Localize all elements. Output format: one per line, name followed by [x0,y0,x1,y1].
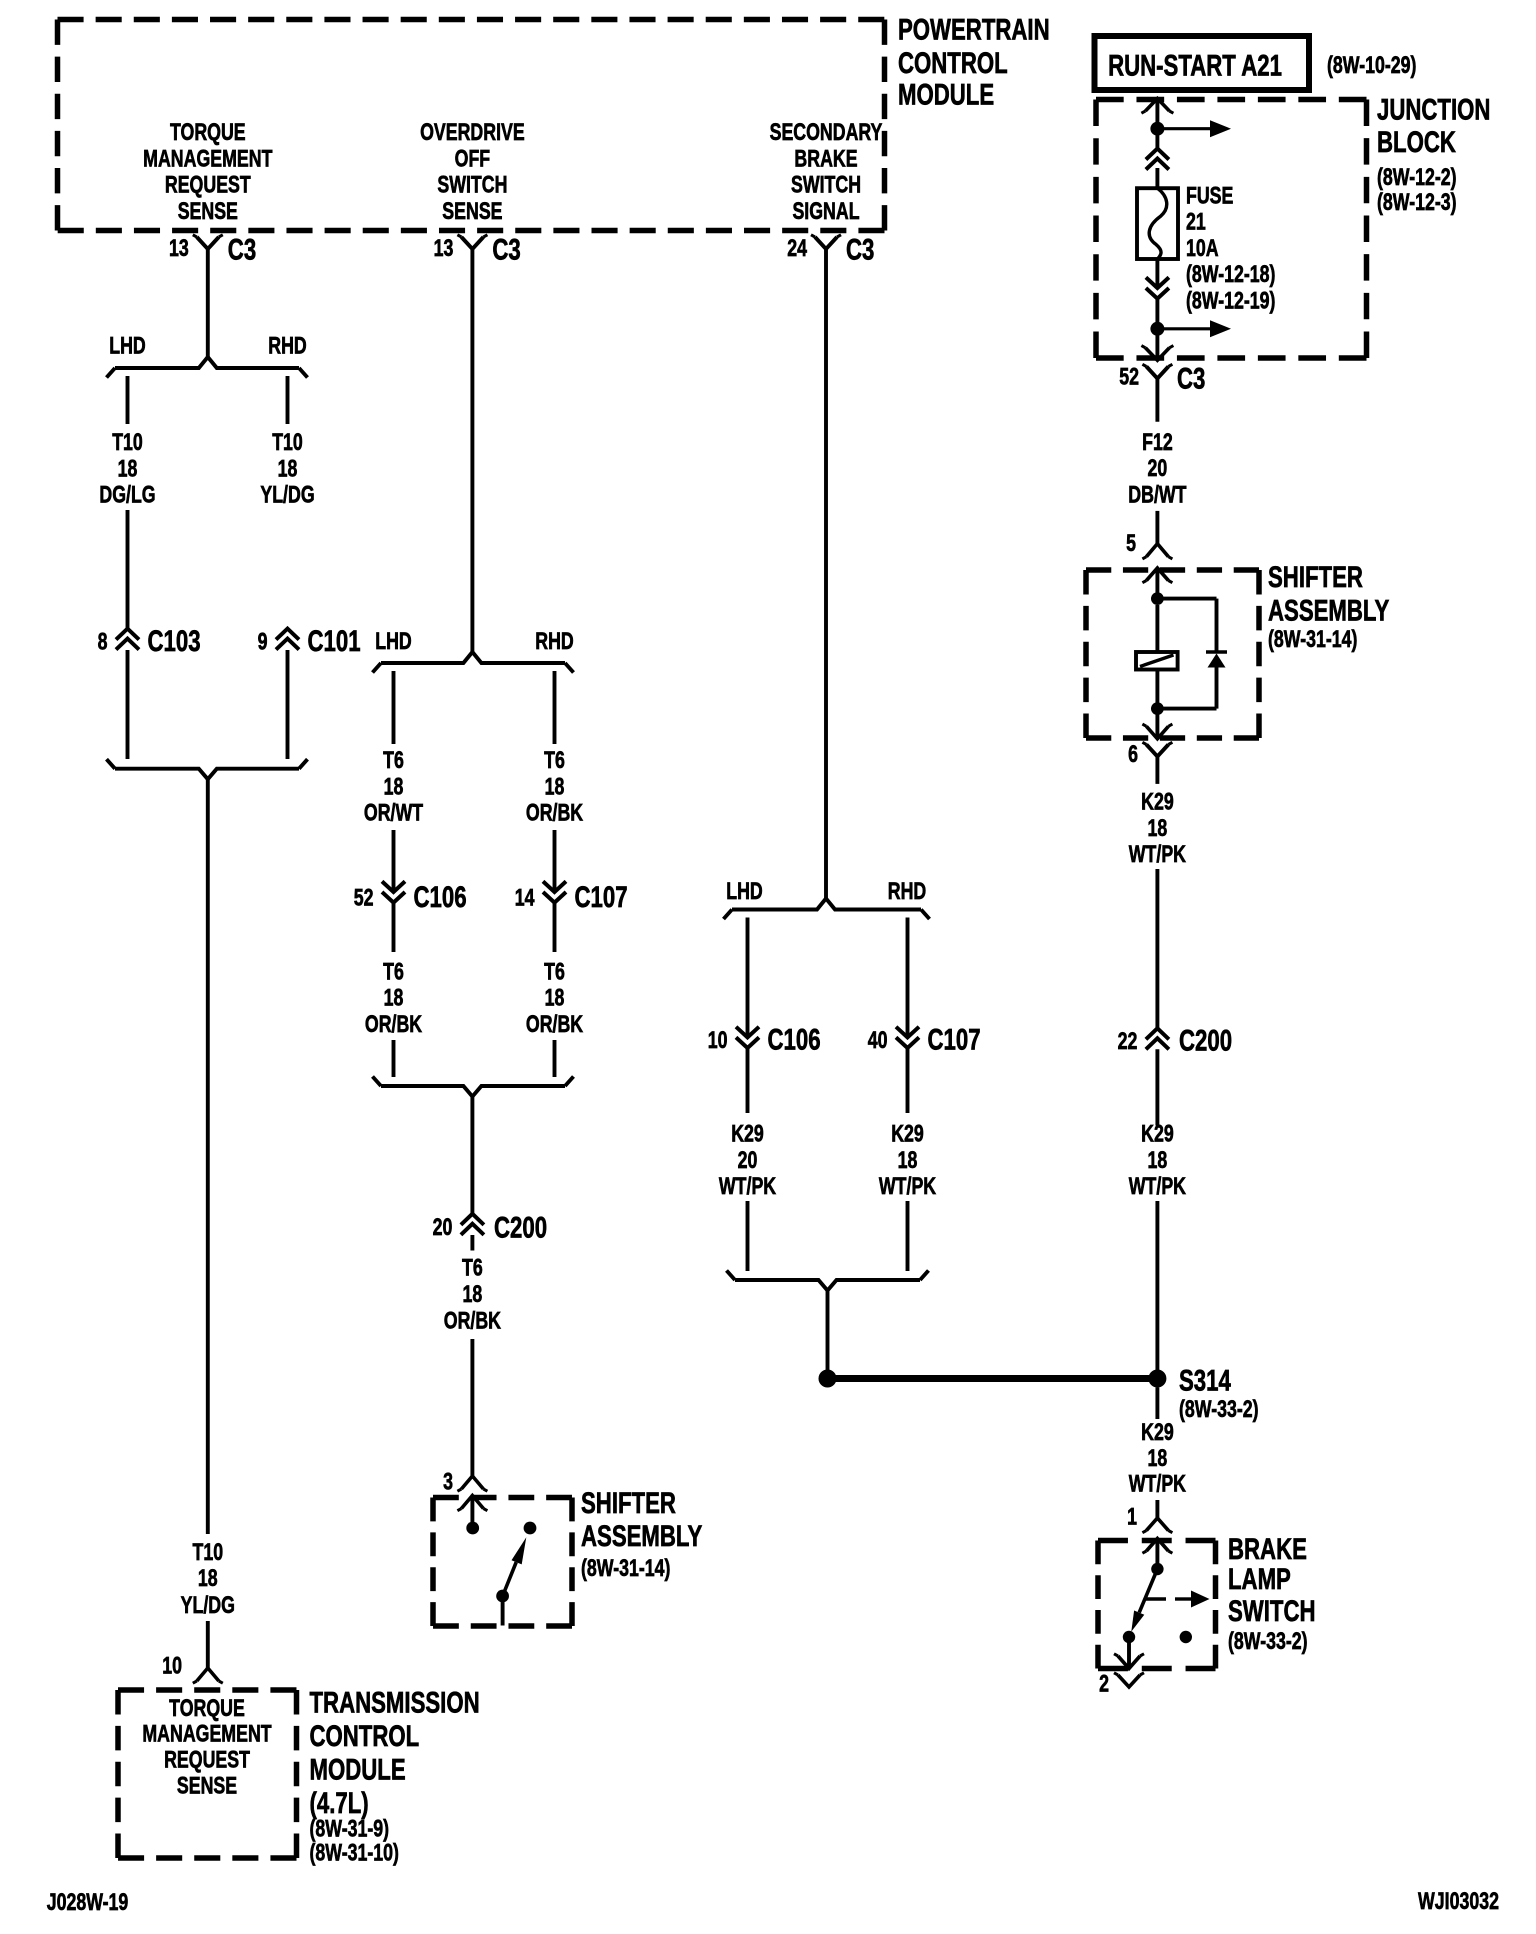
svg-text:JUNCTION: JUNCTION [1377,92,1490,126]
wire label F12 20 DB/WT [1128,429,1186,508]
junction dot (left end of S314 bus) [819,1370,837,1388]
connector C3 pin 13 (torque management request sense) [169,232,256,266]
wire merged T10 net down to TCM (long vertical) [206,779,210,1534]
wire below C200 [470,1235,474,1251]
shifter assembly dashed box (overdrive off switch) [433,1495,572,1501]
wire merged T6 net down to C200 [470,1097,474,1214]
svg-text:C200: C200 [1179,1023,1232,1057]
svg-text:ASSEMBLY: ASSEMBLY [581,1519,703,1553]
svg-text:5: 5 [1126,531,1136,557]
in-line connector C106 pin 52 [354,880,467,914]
svg-text:WT/PK: WT/PK [879,1174,937,1200]
svg-text:MANAGEMENT: MANAGEMENT [143,146,272,172]
diode branch wiring (top) [1157,597,1216,601]
splice label S314 (8W-33-2) [1179,1363,1259,1422]
svg-text:SHIFTER: SHIFTER [581,1486,676,1520]
connector terminal brake lamp switch pin 1 [1127,1504,1172,1533]
in-line connector C101 pin 9 [258,624,361,658]
svg-text:T6: T6 [462,1255,483,1281]
svg-text:T6: T6 [544,959,565,985]
LHD/RHD merge bracket (torque management request sense) [115,769,299,780]
svg-text:MODULE: MODULE [310,1752,406,1786]
svg-text:BRAKE: BRAKE [794,146,857,172]
brake lamp switch title [1228,1532,1316,1655]
svg-text:10A: 10A [1186,235,1219,261]
svg-text:SECONDARY: SECONDARY [770,120,883,146]
svg-text:T6: T6 [383,748,404,774]
LHD/RHD merge bracket (secondary brake) [735,1280,920,1291]
svg-text:TRANSMISSION: TRANSMISSION [310,1685,480,1719]
wire label T6 18 OR/BK (below C107) [526,959,584,1038]
svg-text:LAMP: LAMP [1228,1562,1291,1596]
wire LHD branch K29 upper segment [746,918,750,1038]
svg-text:52: 52 [1119,364,1139,390]
diode branch wire down to cathode [1215,599,1219,652]
junction block title [1377,92,1490,215]
svg-text:BRAKE: BRAKE [1228,1532,1307,1566]
wire merged K29 down to splice [826,1291,830,1372]
svg-text:18: 18 [384,774,404,800]
svg-text:CONTROL: CONTROL [310,1719,420,1753]
svg-text:18: 18 [384,985,404,1011]
svg-text:T10: T10 [112,430,143,456]
open arrow into shifter assembly (wire entering) [461,1496,483,1509]
svg-text:(8W-31-10): (8W-31-10) [310,1840,399,1866]
wire solenoid coil to bottom dot [1155,670,1159,709]
svg-text:K29: K29 [1141,1420,1174,1446]
svg-text:WT/PK: WT/PK [719,1174,777,1200]
wire label K29 20 WT/PK [719,1121,777,1200]
svg-text:OR/BK: OR/BK [526,800,584,826]
diode branch wire down from anode [1215,668,1219,709]
svg-text:6: 6 [1128,742,1138,768]
wire below C106 [392,903,396,952]
svg-text:C106: C106 [414,880,467,914]
in-line connector C107 pin 14 [515,880,628,914]
wire label K29 18 WT/PK (below S314) [1129,1420,1187,1498]
svg-text:FUSE: FUSE [1186,183,1233,209]
svg-text:14: 14 [515,885,535,911]
wire below fuse [1155,259,1159,288]
wire RHD branch to merge [553,1040,557,1077]
svg-text:18: 18 [1148,815,1168,841]
svg-text:SENSE: SENSE [178,198,238,224]
LHD/RHD split bracket [115,357,299,368]
svg-text:24: 24 [787,236,807,262]
svg-text:(8W-33-2): (8W-33-2) [1228,1629,1308,1655]
svg-text:(8W-12-19): (8W-12-19) [1186,288,1275,314]
svg-text:C106: C106 [768,1022,821,1056]
svg-text:18: 18 [1148,1445,1168,1471]
svg-text:18: 18 [1148,1147,1168,1173]
fuse label FUSE 21 10A (8W-12-18) (8W-12-19) [1186,183,1275,314]
RUN-START A21 feed box [1095,36,1310,90]
open arrow into shifter assembly (pin 5 wire) [1146,568,1168,581]
wire bottom dot to box exit [1155,709,1159,739]
wire RHD branch K29 upper segment [906,918,910,1038]
svg-text:C3: C3 [1177,361,1205,395]
LHD/RHD merge bracket (overdrive) [381,1086,565,1097]
svg-text:SWITCH: SWITCH [791,172,861,198]
svg-text:SWITCH: SWITCH [437,172,507,198]
svg-text:C3: C3 [492,232,520,266]
svg-text:YL/DG: YL/DG [260,482,314,508]
svg-text:13: 13 [434,236,454,262]
switch common contact dot (pin 1 side) [1151,1563,1163,1575]
wire LHD branch to merge [392,1040,396,1077]
wire below C200 (col4) [1155,1049,1159,1125]
svg-text:18: 18 [545,774,565,800]
svg-text:TORQUE: TORQUE [169,1695,245,1721]
svg-text:(8W-31-9): (8W-31-9) [310,1816,390,1842]
svg-text:RHD: RHD [535,629,573,655]
svg-text:SWITCH: SWITCH [1228,1594,1316,1628]
svg-text:2: 2 [1099,1671,1109,1697]
svg-text:C107: C107 [575,880,628,914]
open arrow down leaving junction block [1145,348,1169,361]
diode branch wiring (bottom) [1157,707,1216,711]
svg-text:18: 18 [545,985,565,1011]
wire down to splice S314 [1155,1201,1159,1371]
fuse 21 10A element [1137,188,1178,259]
svg-text:OR/WT: OR/WT [364,800,423,826]
wire RHD branch (T10 18 YL/DG) upper segment [286,376,290,424]
PCM pin label: TORQUE MANAGEMENT REQUEST SENSE [143,120,272,225]
svg-text:18: 18 [463,1282,483,1308]
svg-text:OFF: OFF [455,146,491,172]
wire contact dot to box exit [1127,1637,1131,1669]
svg-text:(8W-33-2): (8W-33-2) [1179,1397,1259,1423]
junction dot (solenoid bottom) [1151,702,1164,715]
wire label T6 18 OR/WT [364,748,423,827]
wire entry arrow to switch common dot [1155,1539,1159,1564]
svg-text:8: 8 [98,629,108,655]
wire LHD branch below C103 [126,650,130,759]
splice S314 dot [1148,1370,1166,1388]
svg-text:K29: K29 [731,1121,764,1147]
wire below splice S314 [1155,1388,1159,1420]
switch contact dot (overdrive off switch, right) [524,1522,537,1535]
svg-text:S314: S314 [1179,1363,1231,1397]
wire into TCM pin 10 [206,1621,210,1668]
svg-text:WJI03032: WJI03032 [1418,1889,1499,1915]
svg-text:C101: C101 [308,624,361,658]
svg-text:20: 20 [738,1147,758,1173]
switch contact dot (pin 2 side) [1123,1631,1135,1643]
connector terminal shifter assembly pin 6 [1128,742,1172,784]
wire RHD branch into C107 [553,830,557,892]
svg-text:20: 20 [433,1215,453,1241]
wire top dot to solenoid coil [1155,605,1159,652]
transmission control module TCM dashed box [118,1687,297,1693]
svg-text:3: 3 [443,1469,453,1495]
in-line connector C106 pin 10 [708,1022,821,1056]
overdrive off switch blade with arrowhead [503,1537,527,1596]
wire label T6 18 OR/BK (to shifter assembly) [444,1255,502,1334]
connector C3 pin 52 below junction block [1119,361,1205,422]
open arrow into brake lamp switch [1146,1539,1168,1552]
svg-text:C200: C200 [494,1210,547,1244]
svg-text:LHD: LHD [109,333,146,359]
shifter assembly title (upper) [1268,560,1390,653]
svg-text:20: 20 [1148,456,1168,482]
svg-text:1: 1 [1127,1504,1137,1530]
connector terminal brake lamp switch pin 2 [1099,1671,1144,1697]
PCM title: POWERTRAIN CONTROL MODULE [898,12,1050,111]
wire RHD branch T6 upper segment [553,671,557,744]
svg-text:LHD: LHD [726,879,763,905]
switch position tick [1146,1597,1166,1600]
junction dot (solenoid top) [1151,592,1164,605]
svg-text:9: 9 [258,629,268,655]
wire label T10 18 DG/LG [99,430,155,509]
connector C3 pin 24 (secondary brake switch signal) [787,232,874,266]
svg-text:K29: K29 [891,1121,924,1147]
connector C3 pin 13 (overdrive off switch sense) [434,232,521,266]
svg-text:10: 10 [162,1653,182,1679]
svg-text:CONTROL: CONTROL [898,46,1008,80]
wire down to C200 pin 22 [1155,869,1159,1028]
wire LHD branch into C103 [126,510,130,629]
unused switch contact dot [1180,1631,1192,1643]
wire below C106 (col3) [746,1048,750,1113]
PCM pin label: SECONDARY BRAKE SWITCH SIGNAL [770,120,883,225]
wire junction dot to in-line connector [1155,129,1159,149]
open arrow down leaving brake lamp switch [1118,1656,1140,1669]
junction dot (run-start branch) [1150,122,1164,136]
svg-text:SENSE: SENSE [442,198,502,224]
svg-text:LHD: LHD [375,629,412,655]
svg-text:(4.7L): (4.7L) [310,1786,369,1820]
wire from switch pivot to box edge [501,1596,505,1626]
diode D1 (clamp diode) [1206,652,1227,668]
in-line connector C200 pin 22 [1118,1023,1232,1057]
svg-text:(8W-12-2): (8W-12-2) [1377,165,1457,191]
svg-text:SIGNAL: SIGNAL [792,198,859,224]
wire LHD branch T6 upper segment [392,671,396,744]
open arrow down leaving shifter assembly [1146,726,1168,739]
svg-text:OR/BK: OR/BK [526,1011,584,1037]
splice bus wire to S314 [828,1375,1158,1382]
wire label T10 18 YL/DG [260,430,314,509]
LHD/RHD split bracket (secondary brake) [732,899,921,910]
connector terminal TCM pin 10 [162,1653,223,1683]
connector terminal shifter assembly pin 5 [1126,531,1172,559]
svg-text:ASSEMBLY: ASSEMBLY [1268,593,1390,627]
svg-text:18: 18 [898,1147,918,1173]
in-line connector C103 pin 8 [98,624,201,658]
branch arrow to other circuits (top) [1157,127,1211,130]
svg-text:52: 52 [354,885,374,911]
wire label K29 18 WT/PK (below C200) [1129,1121,1187,1200]
svg-text:18: 18 [118,456,138,482]
svg-text:18: 18 [278,456,298,482]
svg-text:WT/PK: WT/PK [1129,1471,1187,1497]
shifter assembly dashed box (brake transmission shift interlock) [1086,567,1259,573]
svg-text:F12: F12 [1142,429,1173,455]
brake lamp switch blade with arrowhead [1131,1569,1157,1632]
svg-text:(8W-10-29): (8W-10-29) [1327,53,1416,79]
wire into brake lamp switch pin 1 [1155,1500,1159,1518]
wire entry arrow to top junction dot [1155,568,1159,599]
connector terminal shifter assembly pin 3 [443,1469,487,1495]
svg-text:OR/BK: OR/BK [365,1011,423,1037]
wire LHD branch into C106 [392,830,396,892]
svg-text:OVERDRIVE: OVERDRIVE [420,120,525,146]
wire from PCM pin 13 C3 down to LHD/RHD split (overdrive) [470,258,474,652]
wire label K29 18 WT/PK (below shifter) [1129,789,1187,868]
svg-text:T10: T10 [272,430,303,456]
svg-text:(8W-31-14): (8W-31-14) [1268,627,1357,653]
svg-text:(8W-12-3): (8W-12-3) [1377,190,1457,216]
svg-text:C3: C3 [228,232,256,266]
svg-text:SHIFTER: SHIFTER [1268,560,1363,594]
svg-text:DB/WT: DB/WT [1128,482,1186,508]
svg-text:POWERTRAIN: POWERTRAIN [898,12,1050,46]
branch arrow to other circuits (bottom) [1157,327,1211,330]
svg-text:T6: T6 [383,959,404,985]
svg-text:WT/PK: WT/PK [1129,842,1187,868]
wire below C107 (col3) [906,1048,910,1113]
TCM title: TRANSMISSION CONTROL MODULE (4.7L) [310,1685,480,1866]
svg-text:REQUEST: REQUEST [165,172,251,198]
junction dot (lower branch) [1150,322,1164,336]
svg-text:OR/BK: OR/BK [444,1308,502,1334]
junction block dashed box [1096,97,1367,103]
wire from feed arrow to junction dot [1155,99,1159,129]
svg-text:13: 13 [169,236,189,262]
wire from PCM pin 24 C3 down to LHD/RHD split (secondary brake) [824,258,828,898]
svg-text:C103: C103 [148,624,201,658]
interlock solenoid coil (rectangle with diagonal) [1136,652,1178,670]
svg-text:C107: C107 [928,1022,981,1056]
svg-text:REQUEST: REQUEST [164,1747,250,1773]
wire from entry arrow to switch contact [470,1496,474,1523]
wire below C107 [553,903,557,952]
svg-text:SENSE: SENSE [177,1773,237,1799]
svg-text:22: 22 [1118,1029,1138,1055]
wire label T6 18 OR/BK (below C106) [365,959,423,1038]
wire to lower junction dot [1155,299,1159,329]
open arrow up to RUN-START feed [1145,99,1169,112]
wire into shifter assembly pin 5 [1155,511,1159,544]
in-line connector C107 pin 40 [868,1022,981,1056]
wire to fuse 21 [1155,168,1159,188]
svg-text:YL/DG: YL/DG [181,1593,235,1619]
in-line connector halves inside junction block (lower) [1146,277,1169,288]
svg-text:RUN-START A21: RUN-START A21 [1108,48,1282,82]
svg-text:K29: K29 [1141,1121,1174,1147]
svg-text:MANAGEMENT: MANAGEMENT [142,1721,271,1747]
svg-text:DG/LG: DG/LG [99,482,155,508]
svg-text:K29: K29 [1141,789,1174,815]
svg-text:T6: T6 [544,748,565,774]
wire RHD branch below C101 [286,650,290,759]
svg-text:RHD: RHD [268,333,306,359]
powertrain control module PCM dashed box [58,17,885,23]
switch contact dot (overdrive off switch, left) [466,1522,479,1535]
wire LHD branch to merge (col3) [746,1201,750,1271]
in-line connector C200 pin 20 [433,1210,547,1244]
shifter assembly title (lower) [581,1486,703,1582]
svg-text:BLOCK: BLOCK [1377,125,1456,159]
svg-text:18: 18 [198,1566,218,1592]
wire label T10 18 YL/DG (to TCM pin 10) [181,1539,235,1618]
wire RHD branch to merge (col3) [906,1201,910,1271]
svg-text:TORQUE: TORQUE [170,120,246,146]
wire LHD branch (T10 18 DG/LG) upper segment [126,376,130,424]
svg-text:MODULE: MODULE [898,77,994,111]
in-line connector halves inside junction block (upper) [1146,149,1169,160]
wire to junction block exit [1155,329,1159,361]
svg-text:T10: T10 [193,1539,224,1565]
LHD/RHD split bracket (overdrive) [381,652,565,663]
brake lamp switch dashed box [1098,1538,1216,1544]
svg-text:WT/PK: WT/PK [1129,1174,1187,1200]
PCM pin label: OVERDRIVE OFF SWITCH SENSE [420,120,525,225]
wire into shifter assembly pin 3 [470,1339,474,1476]
svg-text:10: 10 [708,1028,728,1054]
svg-text:(8W-31-14): (8W-31-14) [581,1556,670,1582]
svg-text:(8W-12-18): (8W-12-18) [1186,262,1275,288]
wire from PCM pin 13 C3 down to LHD/RHD split [206,258,210,357]
svg-text:J028W-19: J028W-19 [47,1889,129,1915]
svg-text:21: 21 [1186,209,1206,235]
svg-text:RHD: RHD [888,879,926,905]
svg-text:C3: C3 [846,232,874,266]
wire label T6 18 OR/BK (RHD) [526,748,584,827]
switch pivot dot [496,1590,509,1603]
TCM pin label: TORQUE MANAGEMENT REQUEST SENSE [142,1695,271,1799]
svg-text:40: 40 [868,1028,888,1054]
arrow to brake lamp circuit (right) [1175,1591,1210,1608]
wire label K29 18 WT/PK (RHD) [879,1121,937,1200]
